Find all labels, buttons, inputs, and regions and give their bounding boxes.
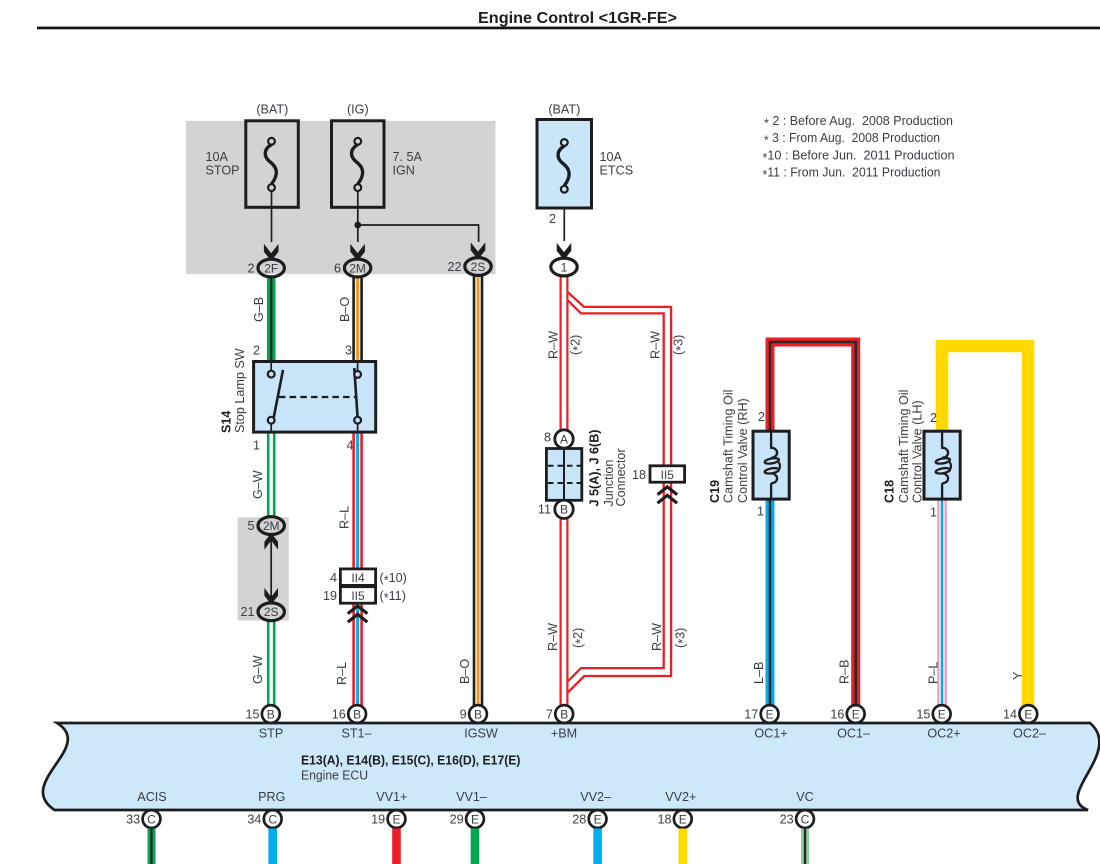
- svg-text:2F: 2F: [264, 261, 278, 275]
- svg-text:S14: S14: [220, 411, 234, 433]
- svg-text:(*11): (*11): [380, 589, 406, 605]
- svg-text:E13(A), E14(B), E15(C), E16(D): E13(A), E14(B), E15(C), E16(D), E17(E): [301, 753, 521, 768]
- svg-text:34: 34: [247, 813, 261, 827]
- svg-text:2: 2: [253, 344, 260, 358]
- stub wire G-B ACIS: [148, 829, 156, 864]
- svg-text:15: 15: [245, 708, 259, 722]
- svg-text:16: 16: [830, 708, 844, 722]
- title rule: [37, 27, 1100, 30]
- svg-text:ST1–: ST1–: [341, 727, 371, 741]
- svg-text:1: 1: [930, 506, 937, 520]
- pin 18 E VV2+: [674, 810, 692, 828]
- svg-text:A: A: [560, 432, 568, 446]
- svg-text:17: 17: [744, 708, 758, 722]
- svg-text:R–L: R–L: [338, 506, 352, 529]
- fuse 10A ETCS box: [537, 120, 592, 209]
- svg-text:5: 5: [247, 519, 254, 533]
- valve C19 box: [753, 431, 789, 499]
- svg-text:(*2): (*2): [571, 628, 587, 648]
- gray panel fuse block: [186, 121, 496, 274]
- wire G-B (2F to stop lamp sw): [267, 276, 276, 362]
- svg-text:VV2+: VV2+: [665, 790, 696, 804]
- svg-text:4: 4: [330, 571, 337, 585]
- svg-text:IGN: IGN: [393, 164, 415, 178]
- svg-text:+BM: +BM: [551, 727, 577, 741]
- svg-text:G–W: G–W: [251, 470, 265, 499]
- wire R-W main (1 to +BM pin): [560, 275, 569, 706]
- svg-text:L–B: L–B: [752, 662, 766, 684]
- svg-text:II5: II5: [351, 589, 365, 603]
- svg-text:E: E: [679, 812, 687, 826]
- svg-text:(BAT): (BAT): [548, 103, 580, 117]
- svg-text:(*3): (*3): [674, 628, 690, 648]
- svg-text:B: B: [560, 707, 568, 721]
- svg-text:7: 7: [546, 708, 553, 722]
- arrow into 1: [557, 243, 572, 260]
- svg-text:II5: II5: [661, 468, 675, 482]
- svg-text:4: 4: [346, 439, 353, 453]
- svg-text:7. 5A: 7. 5A: [393, 150, 423, 164]
- svg-text:10A: 10A: [206, 150, 229, 164]
- wire P-L (C18 pin1 to OC2+): [937, 498, 947, 706]
- svg-text:E: E: [392, 812, 400, 826]
- svg-text:II4: II4: [351, 571, 365, 585]
- svg-text:(*3): (*3): [672, 335, 688, 355]
- svg-text:E: E: [594, 812, 602, 826]
- wire R-W branch *3: [567, 292, 672, 694]
- svg-text:B: B: [560, 503, 568, 517]
- arrow up to 2M: [264, 533, 278, 550]
- svg-text:Stop Lamp SW: Stop Lamp SW: [233, 348, 247, 433]
- svg-text:18: 18: [632, 468, 646, 482]
- pin 23 C VC: [796, 810, 814, 828]
- wire G-W (sw to 2M): [267, 431, 276, 518]
- svg-text:2: 2: [247, 262, 254, 276]
- svg-text:P–L: P–L: [927, 662, 941, 684]
- svg-text:28: 28: [572, 813, 586, 827]
- fuse 10A STOP box: [246, 121, 298, 208]
- pin 15 E OC2+: [933, 705, 951, 723]
- connector circle B: [555, 500, 573, 518]
- svg-text:2: 2: [549, 212, 556, 226]
- svg-text:1: 1: [253, 439, 260, 453]
- svg-text:* 2 : Before Aug. 2008 Produc: * 2 : Before Aug. 2008 Production: [764, 114, 953, 130]
- svg-text:3: 3: [345, 344, 352, 358]
- svg-text:11: 11: [538, 503, 551, 517]
- stub wire Y VV2+: [678, 829, 687, 864]
- stub wire G VV1-: [471, 829, 480, 864]
- svg-text:E: E: [471, 812, 479, 826]
- svg-text:R–L: R–L: [335, 662, 349, 685]
- svg-text:29: 29: [450, 813, 464, 827]
- svg-text:22: 22: [447, 260, 461, 274]
- svg-text:23: 23: [780, 813, 794, 827]
- svg-text:STP: STP: [259, 727, 284, 741]
- svg-text:Engine ECU: Engine ECU: [301, 769, 368, 783]
- svg-text:16: 16: [332, 708, 346, 722]
- svg-text:1: 1: [561, 260, 568, 274]
- stub wire R VV1+: [392, 829, 401, 864]
- svg-text:B–O: B–O: [458, 659, 472, 684]
- switch blade left: [274, 370, 283, 417]
- arrow into 2M: [350, 244, 365, 261]
- svg-text:2: 2: [930, 411, 937, 425]
- pin 33 C ACIS: [143, 810, 161, 828]
- svg-text:VV2–: VV2–: [580, 790, 611, 804]
- connector 2M in pair: [258, 517, 284, 535]
- svg-text:19: 19: [371, 813, 385, 827]
- pin 29 E VV1-: [466, 810, 484, 828]
- svg-text:E: E: [766, 707, 774, 721]
- pin 14 E OC2-: [1019, 705, 1037, 723]
- connector circle A: [555, 430, 573, 448]
- arrow into 2F: [264, 244, 279, 261]
- junction dot IGN branch: [354, 222, 361, 229]
- svg-text:G–B: G–B: [252, 297, 266, 322]
- svg-text:Camshaft Timing Oil: Camshaft Timing Oil: [897, 390, 911, 503]
- switch contact circles: [268, 371, 275, 378]
- fuse lead STOP: [271, 191, 273, 242]
- pair link line: [270, 536, 272, 601]
- svg-text:B: B: [474, 707, 482, 721]
- svg-text:B–O: B–O: [338, 297, 352, 322]
- svg-text:VV1–: VV1–: [456, 790, 487, 804]
- svg-text:OC2–: OC2–: [1013, 727, 1046, 741]
- svg-text:B: B: [267, 707, 275, 721]
- svg-text:Engine Control <1GR-FE>: Engine Control <1GR-FE>: [478, 10, 677, 27]
- chevron arrows below II5: [348, 606, 368, 622]
- svg-text:C: C: [147, 812, 156, 826]
- svg-text:OC2+: OC2+: [927, 727, 960, 741]
- connector II5 box 18: [650, 466, 685, 482]
- svg-text:18: 18: [657, 813, 671, 827]
- svg-text:PRG: PRG: [258, 790, 285, 804]
- stub wire VC pale green: [801, 829, 809, 864]
- pin 17 E OC1+: [761, 705, 779, 723]
- svg-text:* 3 : From Aug. 2008 Producti: * 3 : From Aug. 2008 Production: [764, 131, 940, 147]
- svg-text:C: C: [268, 812, 277, 826]
- svg-text:E: E: [852, 707, 860, 721]
- connector oval 2M: [344, 259, 370, 277]
- svg-text:2S: 2S: [471, 260, 486, 274]
- svg-text:1: 1: [757, 505, 764, 519]
- pin 7 B +BM: [555, 705, 573, 723]
- svg-text:10A: 10A: [600, 150, 623, 164]
- fuse 7.5A IGN box: [332, 121, 385, 208]
- fuse lead IGN: [357, 191, 359, 242]
- svg-text:R–W: R–W: [650, 623, 664, 651]
- svg-text:B: B: [353, 707, 361, 721]
- svg-text:14: 14: [1003, 708, 1017, 722]
- pin 34 C PRG: [264, 810, 282, 828]
- svg-text:(*2): (*2): [569, 335, 585, 355]
- chevron arrows below II5-18: [658, 487, 678, 503]
- svg-text:(IG): (IG): [347, 103, 369, 117]
- svg-text:G–W: G–W: [251, 655, 265, 684]
- wire Y loop (C18 pin2 to OC2-): [942, 346, 1028, 706]
- pin 16 E OC1-: [847, 705, 865, 723]
- switch blade right: [354, 368, 357, 418]
- svg-text:VC: VC: [796, 790, 814, 804]
- svg-text:9: 9: [460, 708, 467, 722]
- svg-text:R–W: R–W: [547, 331, 561, 359]
- gray panel connector 2M-2S: [238, 517, 289, 620]
- arrow into 2S: [471, 242, 486, 259]
- stub wire L VV2-: [593, 829, 602, 864]
- pin 9 B IGSW: [469, 705, 487, 723]
- svg-text:19: 19: [323, 589, 337, 603]
- svg-text:(*10): (*10): [380, 571, 407, 587]
- svg-text:*10 : Before Jun. 2011 Produc: *10 : Before Jun. 2011 Production: [763, 148, 955, 164]
- svg-text:ETCS: ETCS: [600, 164, 634, 178]
- wire B-O (2S to IGSW pin): [473, 275, 484, 707]
- connector oval 2F: [258, 259, 284, 277]
- svg-text:C: C: [801, 812, 810, 826]
- wire R-B loop (C19 pin2 to OC1-): [770, 342, 856, 706]
- switch dashed link: [279, 396, 357, 398]
- svg-text:*11 : From Jun. 2011 Producti: *11 : From Jun. 2011 Production: [763, 166, 941, 182]
- svg-text:J 5(A), J 6(B): J 5(A), J 6(B): [588, 430, 602, 507]
- svg-text:ACIS: ACIS: [137, 790, 166, 804]
- pin 28 E VV2-: [589, 810, 607, 828]
- arrow down to 2S: [264, 588, 278, 605]
- svg-text:33: 33: [126, 813, 140, 827]
- connector II5 box: [340, 587, 375, 604]
- svg-text:Connector: Connector: [614, 448, 628, 506]
- wire L-B (C19 pin1 to OC1+): [766, 498, 775, 706]
- svg-text:15: 15: [916, 708, 930, 722]
- svg-text:Control Valve (RH): Control Valve (RH): [736, 398, 750, 503]
- svg-text:21: 21: [240, 605, 254, 619]
- pin 16 B ST1-: [348, 705, 366, 723]
- wire R-L (sw pin4 to ST1- pin): [352, 431, 363, 706]
- svg-text:E: E: [1024, 707, 1032, 721]
- svg-text:OC1–: OC1–: [837, 727, 870, 741]
- connector oval 1: [551, 258, 577, 276]
- svg-text:C19: C19: [708, 480, 722, 503]
- connector oval 2S: [465, 258, 491, 276]
- valve C18 box: [924, 431, 960, 499]
- connector II4 box: [340, 569, 375, 586]
- svg-text:Camshaft Timing Oil: Camshaft Timing Oil: [722, 390, 736, 503]
- svg-text:Control Valve (LH): Control Valve (LH): [911, 400, 925, 503]
- pin 15 B STP: [262, 705, 280, 723]
- svg-text:2S: 2S: [264, 605, 279, 619]
- svg-text:2: 2: [758, 410, 765, 424]
- svg-text:R–W: R–W: [546, 623, 560, 651]
- svg-text:E: E: [938, 707, 946, 721]
- svg-text:Y: Y: [1011, 671, 1025, 680]
- wire IGN branch to 2S: [358, 225, 479, 242]
- junction connector J5 J6 box: [546, 449, 581, 501]
- switch leads: [270, 362, 272, 373]
- Engine ECU body: [43, 723, 1099, 810]
- stub wire L PRG: [268, 829, 277, 864]
- pin 19 E VV1+: [388, 810, 406, 828]
- svg-text:STOP: STOP: [206, 164, 240, 178]
- fuse lead ETCS: [563, 194, 565, 242]
- svg-text:6: 6: [334, 262, 341, 276]
- svg-text:R–B: R–B: [838, 660, 852, 685]
- wire B-O (2M to sw pin3): [352, 276, 363, 362]
- svg-text:2M: 2M: [263, 519, 280, 533]
- svg-text:IGSW: IGSW: [464, 727, 498, 741]
- svg-text:8: 8: [544, 431, 551, 445]
- svg-text:VV1+: VV1+: [376, 790, 407, 804]
- wire G-W (2S to STP pin): [267, 619, 276, 706]
- switch S14 box: [254, 362, 376, 433]
- svg-text:(BAT): (BAT): [256, 103, 288, 117]
- svg-text:R–W: R–W: [649, 331, 663, 359]
- connector 2S in pair: [258, 603, 284, 621]
- svg-text:C18: C18: [883, 480, 897, 503]
- svg-text:2M: 2M: [349, 261, 366, 275]
- svg-text:OC1+: OC1+: [754, 727, 787, 741]
